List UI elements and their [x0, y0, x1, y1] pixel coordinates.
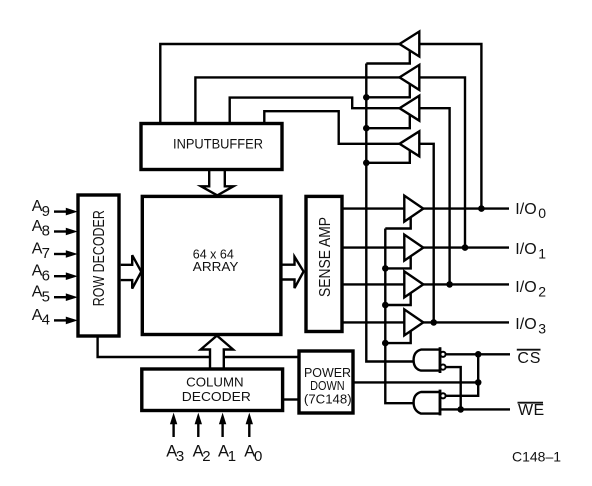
junction: B7 enable on enable net	[382, 302, 389, 309]
svg-text:8: 8	[42, 223, 50, 240]
label A4	[32, 307, 50, 329]
gate G1 input bubble (WE)	[440, 365, 445, 370]
svg-text:COLUMN: COLUMN	[186, 375, 244, 390]
input A5 wire and arrowhead	[54, 293, 78, 301]
svg-text:9: 9	[42, 203, 50, 220]
wire COLUMN DECODER to POWER DOWN	[283, 398, 299, 400]
wire DIN2: INPUT BUFFER top to buffer B3 tip	[230, 98, 400, 124]
junction: B4 enable on enable net	[363, 160, 370, 167]
wire DIN3: INPUT BUFFER top to buffer B4 tip	[264, 111, 399, 144]
label I/O2	[515, 279, 546, 299]
svg-text:3: 3	[176, 448, 184, 465]
svg-text:2: 2	[202, 448, 210, 465]
wire B1 input from I/O0 node	[419, 44, 481, 209]
label A6	[32, 263, 50, 285]
buffer B5 (output, I/O0)	[404, 196, 423, 222]
svg-text:C148–1: C148–1	[512, 448, 561, 464]
junction: B6 enable on enable net	[382, 265, 389, 272]
arrow: INPUT BUFFER to ARRAY (hollow down arrow)	[201, 171, 233, 196]
svg-text:3: 3	[538, 320, 546, 336]
block U4 SENSE AMP	[306, 196, 342, 331]
svg-text:I/O: I/O	[515, 279, 536, 296]
wire ROW DECODER to POWER DOWN	[98, 336, 299, 357]
wire SENSE AMP to buffer B5	[342, 207, 404, 209]
wire B2 enable stub	[366, 84, 410, 97]
buffer B3 (input, I/O2)	[400, 96, 420, 121]
input A7 wire and arrowhead	[54, 250, 78, 258]
input A9 wire and arrowhead	[54, 208, 78, 216]
junction: WE to G1 branch	[457, 406, 464, 413]
label A7	[32, 241, 50, 263]
input A1 wire and arrowhead	[219, 413, 226, 437]
svg-text:2: 2	[538, 283, 546, 299]
junction: node I/O0	[478, 205, 485, 212]
wire B4 enable stub	[366, 151, 410, 163]
wire I/O2 output	[423, 283, 509, 285]
svg-text:I/O: I/O	[515, 241, 536, 258]
svg-text:WE: WE	[518, 402, 545, 419]
buffer B8 (output, I/O3)	[404, 309, 423, 335]
block U1 INPUT BUFFER	[141, 124, 282, 170]
junction: node I/O3	[430, 319, 437, 326]
buffer B1 (input, I/O0)	[400, 32, 420, 57]
svg-text:POWER: POWER	[304, 366, 351, 380]
arrow: COLUMN DECODER to ARRAY (hollow up arrow)	[201, 336, 233, 369]
label A1	[218, 442, 236, 465]
wire SENSE AMP to buffer B6	[342, 246, 404, 248]
svg-text:I/O: I/O	[515, 201, 536, 218]
junction: B3 enable on enable net	[363, 125, 370, 132]
input A8 wire and arrowhead	[54, 228, 78, 236]
label I/O3	[515, 316, 546, 336]
junction: node I/O1	[462, 244, 469, 251]
wire B7 enable stub	[385, 293, 410, 305]
wire DIN1: INPUT BUFFER top to buffer B2 tip	[195, 77, 399, 124]
wire POWER DOWN input from CS	[353, 381, 478, 383]
label A5	[32, 284, 50, 306]
junction: B2 enable on enable net	[363, 94, 370, 101]
gate G1 (write enable AND, inverted inputs)	[414, 347, 440, 373]
svg-text:DECODER: DECODER	[182, 389, 251, 404]
wire B8 enable stub	[385, 331, 410, 343]
svg-text:0: 0	[538, 205, 546, 221]
label A0	[244, 442, 262, 465]
label I/O1	[515, 241, 546, 261]
buffer B7 (output, I/O2)	[404, 271, 423, 297]
wire output-buffer enable net from gate G2 output	[385, 229, 414, 404]
wire B4 input from I/O3 node	[419, 144, 433, 323]
block U5 COLUMN DECODER	[142, 369, 283, 411]
wire I/O3 output	[423, 321, 509, 323]
svg-text:1: 1	[538, 246, 546, 262]
input A0 wire and arrowhead	[246, 413, 253, 437]
wire I/O0 output	[423, 207, 509, 209]
input A2 wire and arrowhead	[195, 413, 202, 437]
svg-text:INPUTBUFFER: INPUTBUFFER	[173, 135, 263, 151]
block U2 ROW DECODER	[78, 195, 119, 336]
gate G1 input bubble (CS)	[440, 352, 445, 357]
input A4 wire and arrowhead	[54, 317, 78, 325]
label A2	[193, 442, 211, 465]
svg-text:6: 6	[42, 267, 50, 284]
wire DIN0: INPUT BUFFER top to buffer B1 tip	[160, 44, 399, 124]
label I/O0	[515, 201, 546, 221]
buffer B4 (input, I/O3)	[400, 131, 420, 156]
svg-text:CS: CS	[517, 350, 541, 367]
wire WE to gate G1 input	[446, 367, 461, 409]
label A3	[166, 442, 184, 465]
input A6 wire and arrowhead	[54, 272, 78, 280]
svg-text:DOWN: DOWN	[310, 379, 345, 393]
gate G2 input bubble (CS)	[440, 393, 445, 398]
junction: CS to POWER DOWN branch	[475, 379, 482, 386]
svg-text:1: 1	[228, 448, 236, 465]
arrow: ROW DECODER to ARRAY (hollow right arrow)	[121, 255, 142, 288]
svg-text:ARRAY: ARRAY	[193, 260, 239, 274]
wire B6 enable stub	[385, 256, 410, 268]
wire B2 input from I/O1 node	[419, 77, 465, 247]
svg-text:(7C148): (7C148)	[304, 393, 352, 407]
svg-text:5: 5	[42, 288, 50, 305]
svg-text:4: 4	[42, 312, 50, 329]
svg-text:I/O: I/O	[515, 316, 536, 333]
wire B1 enable stub	[366, 51, 410, 64]
wire B3 input from I/O2 node	[419, 108, 449, 284]
arrow: ARRAY to SENSE AMP (hollow right arrow)	[283, 257, 304, 288]
input A3 wire and arrowhead	[170, 413, 177, 437]
junction: CS to G2 branch	[475, 351, 482, 358]
label A8	[32, 218, 50, 240]
wire SENSE AMP to buffer B7	[342, 283, 404, 285]
gate G2 (read enable AND, inverted CS input)	[414, 390, 440, 416]
label WE (active low)	[518, 402, 545, 419]
svg-text:SENSE AMP: SENSE AMP	[317, 217, 334, 297]
wire WE net	[440, 408, 510, 410]
wire input-buffer enable net from gate G1 output	[366, 64, 414, 362]
buffer B6 (output, I/O1)	[404, 235, 423, 261]
wire SENSE AMP to buffer B8	[342, 321, 404, 323]
junction: B8 enable on enable net	[382, 340, 389, 347]
svg-text:7: 7	[42, 245, 50, 262]
svg-text:ROW DECODER: ROW DECODER	[91, 210, 108, 306]
svg-text:0: 0	[254, 448, 262, 465]
junction: node I/O2	[446, 281, 453, 288]
wire CS net	[446, 353, 510, 355]
wire CS to gate G2 input	[446, 354, 479, 396]
label A9	[32, 198, 50, 220]
block U6 POWER DOWN (7C148)	[299, 351, 353, 413]
buffer B2 (input, I/O1)	[400, 65, 420, 90]
label CS (active low)	[517, 350, 541, 368]
block U3 64x64 ARRAY	[142, 196, 281, 334]
wire I/O1 output	[423, 246, 509, 248]
wire B5 enable stub	[385, 217, 410, 228]
wire B3 enable stub	[366, 115, 410, 128]
